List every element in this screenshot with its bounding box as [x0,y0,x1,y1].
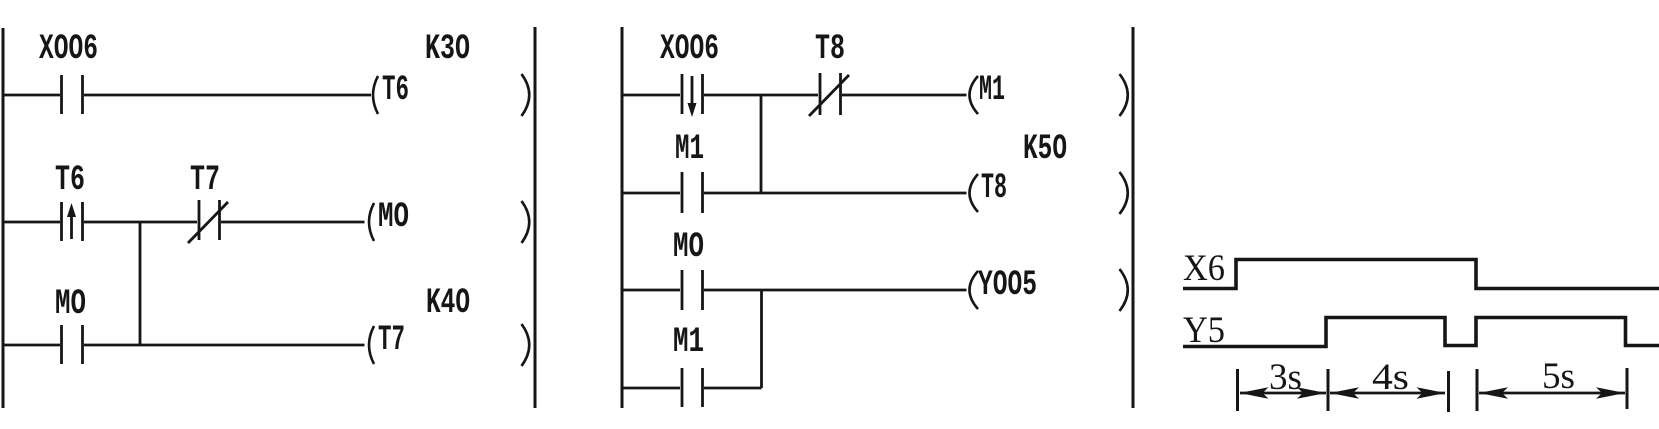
svg-text:K4O: K4O [426,283,470,323]
coil T6 opening parenthesis [373,76,378,114]
wire rung3 left (rail to contact M0) [4,344,60,347]
arrowhead 4s right [1417,387,1446,399]
svg-text:T7: T7 [190,160,220,200]
svg-text:K3O: K3O [425,29,470,69]
svg-text:5s: 5s [1542,356,1575,397]
svg-text:4s: 4s [1372,357,1409,398]
svg-text:Y5: Y5 [1183,310,1225,351]
dimension tick t0 [1236,369,1239,411]
wire rung2 (contact M1 to coil T8) [704,192,967,195]
X6 waveform trace [1183,260,1659,289]
svg-text:MO: MO [55,284,86,324]
dimension line 3s [1240,392,1326,395]
svg-text:3s: 3s [1269,357,1302,398]
dimension line 5s [1479,392,1625,395]
svg-text:MO: MO [378,197,409,237]
contact M1 (normally open) [682,172,703,213]
contact X006 (normally open) [62,75,83,114]
coil Y005 opening parenthesis [970,271,979,309]
left power rail (ladder 1) [2,28,5,408]
Y5 waveform trace [1183,318,1659,347]
coil T8 closing parenthesis [1120,172,1128,214]
svg-text:T8: T8 [981,168,1007,208]
arrowhead 3s left [1240,387,1269,399]
svg-text:K5O: K5O [1023,129,1067,169]
down arrow head of contact X006 [688,103,697,117]
wire rung1 left (rail to contact X006, ladder 2) [623,94,680,97]
arrowhead 3s right [1297,387,1326,399]
wire rung3 left (rail to contact M0) [623,289,680,292]
svg-text:YOO5: YOO5 [978,265,1037,305]
contact M1 (normally open, rung4) [682,368,703,407]
wire rung4 (contact M1 to branch) [704,387,762,390]
wire rung4 left (rail to contact M1) [623,387,680,390]
wire rung1 (contact X006 to coil T6) [84,94,371,97]
svg-text:XOO6: XOO6 [39,29,98,69]
svg-text:T7: T7 [378,320,405,360]
wire rung1 left (rail to contact X006) [4,94,60,97]
svg-text:XOO6: XOO6 [660,29,719,69]
dimension tick t1 (3s) [1327,369,1330,411]
wire rung1 (contact T8 to coil M1) [842,94,967,97]
coil M1 opening parenthesis [970,76,979,114]
svg-text:T6: T6 [55,160,85,200]
coil M0 opening parenthesis [369,203,374,241]
wire rung2 (contact T6 to contact T7, through branch node) [84,221,197,224]
contact T6 (rising edge, with up arrow) [62,202,83,241]
contact M0 (normally open) [62,325,83,364]
contact T8 (normally closed) [809,73,849,116]
left power rail (ladder 2) [621,27,624,408]
arrowhead 5s right [1596,387,1625,399]
dimension tick t3 (8s) [1476,369,1479,411]
up arrow head of contact T6 [67,203,76,217]
svg-text:M1: M1 [673,322,704,362]
coil T7 closing parenthesis [522,324,530,366]
wire rung2 left (rail to contact T6) [4,221,60,224]
coil Y005 closing parenthesis [1120,269,1128,311]
contact X006 (falling edge, with down arrow) [682,74,703,114]
dimension tick t2 (7s) [1447,371,1450,412]
svg-text:T6: T6 [382,70,409,110]
branch vertical wire (rung3 to rung4, ladder 2) [760,290,763,388]
branch vertical wire (rung1 to rung2, ladder 2) [760,95,763,193]
coil T6 closing parenthesis [522,74,530,116]
branch vertical wire (rung2 to rung3) [139,222,142,345]
wire rung3 (contact M0 to coil T7) [84,344,365,347]
wire rung3 (contact M0 to coil Y005, through branch node) [704,289,967,292]
coil M0 closing parenthesis [522,201,530,243]
svg-text:MO: MO [673,227,704,267]
svg-text:M1: M1 [675,129,704,169]
wire rung2 (contact T7 to coil M0) [221,221,365,224]
arrowhead 4s left [1330,387,1359,399]
right power rail (ladder 1) [534,27,537,408]
coil T8 opening parenthesis [970,174,979,212]
wire rung1 (contact X006 to contact T8, through branch node) [704,94,818,97]
svg-text:M1: M1 [979,70,1005,110]
contact M0 (normally open, ladder 2) [682,270,703,310]
coil M1 closing parenthesis [1120,74,1128,116]
svg-text:X6: X6 [1183,248,1225,289]
coil T7 opening parenthesis [369,326,374,364]
dimension line 4s [1330,392,1445,395]
contact T7 (normally closed) [188,200,228,243]
dimension tick t4 (13s) [1626,368,1629,409]
svg-text:T8: T8 [815,29,845,69]
right power rail (ladder 2) [1132,27,1135,408]
arrowhead 5s left [1479,387,1508,399]
wire rung2 left (rail to contact M1) [623,192,680,195]
